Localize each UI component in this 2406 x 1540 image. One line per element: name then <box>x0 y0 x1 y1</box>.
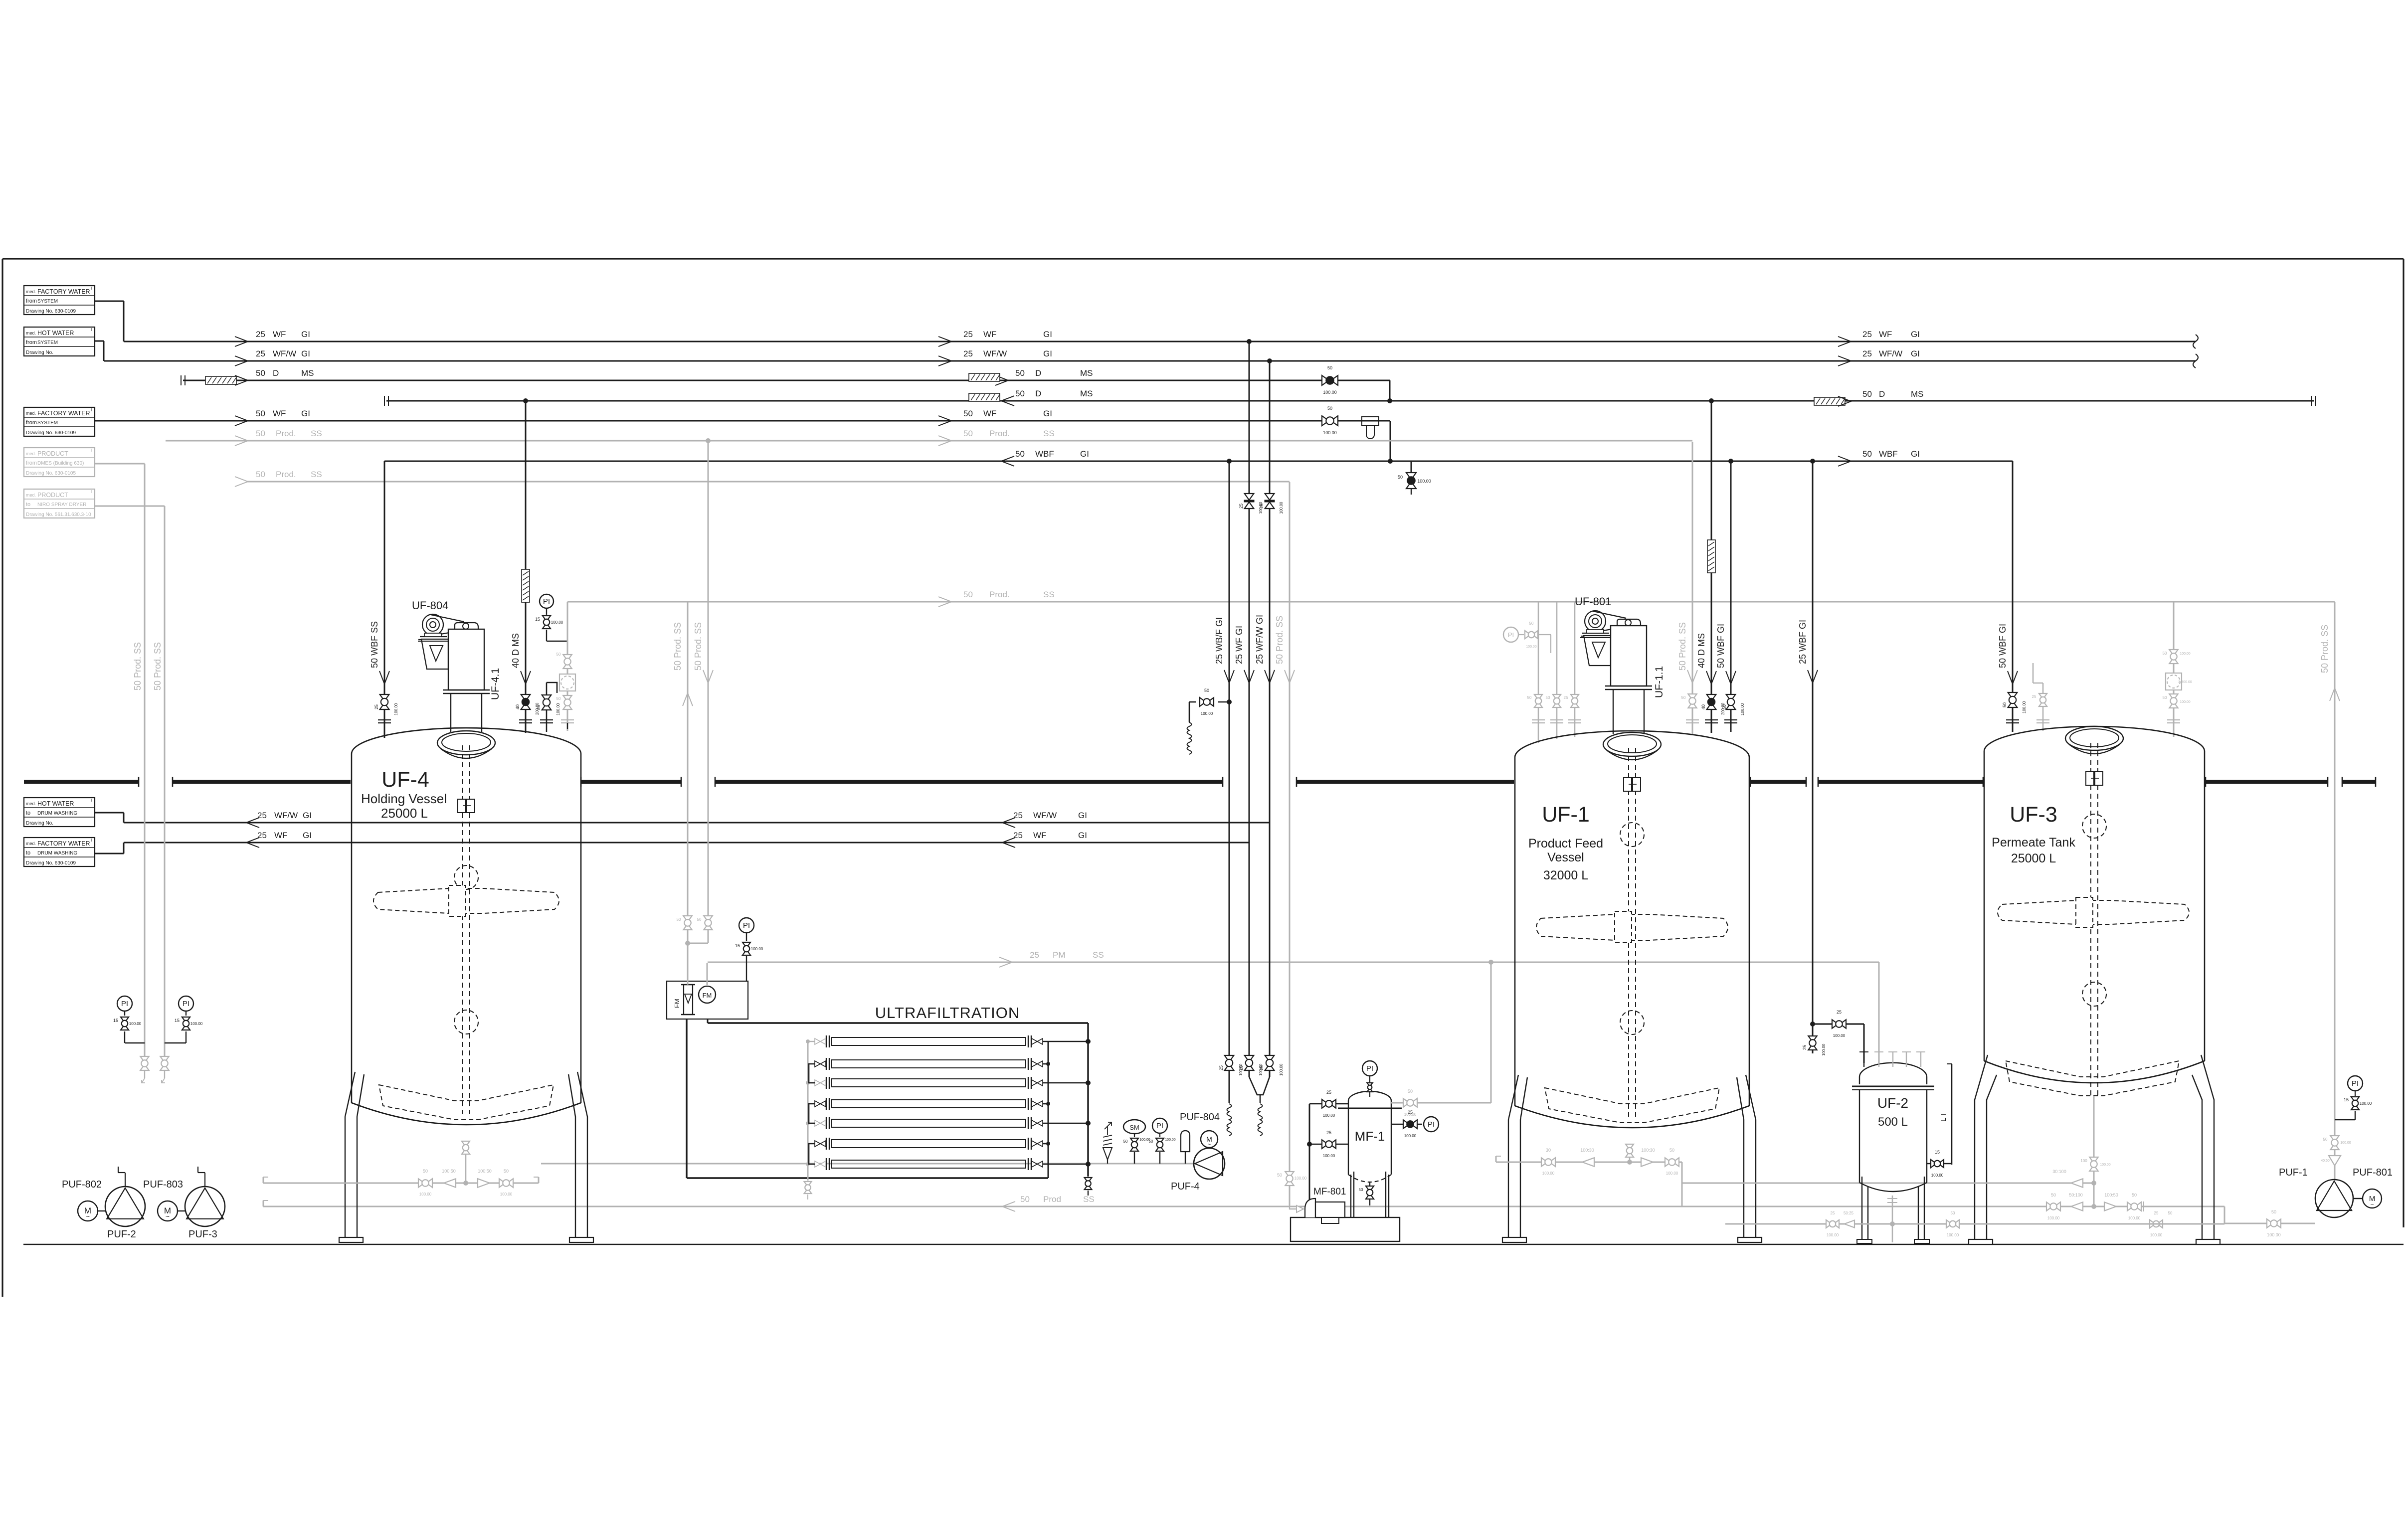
svg-text:50: 50 <box>1204 688 1209 693</box>
wire UF inner right manifold <box>1048 1041 1049 1178</box>
node D2 junction x2787 <box>1387 398 1392 403</box>
svg-text:WF: WF <box>274 831 287 840</box>
wire riser 40 D x3432 <box>1711 401 1712 733</box>
svg-text:50: 50 <box>1527 695 1532 700</box>
wire gray riser x1138 to UF-4 <box>567 602 568 731</box>
wire D line elbow down x2787 <box>1389 380 1391 401</box>
svg-text:50: 50 <box>1015 389 1025 398</box>
svg-text:GI: GI <box>1911 449 1920 459</box>
svg-text:D: D <box>273 368 279 378</box>
valve 25 MF-1 top <box>1309 1103 1348 1105</box>
wire riser x1096 lower <box>546 683 548 732</box>
svg-text:50: 50 <box>1277 1173 1282 1178</box>
instrument PI left1 <box>117 996 132 1011</box>
wire riser 25 WBF x3635 <box>1812 461 1814 1053</box>
svg-text:WF/W: WF/W <box>1879 349 1902 358</box>
wire gray riser x3394 <box>1692 442 1693 735</box>
valve 50 on D line at x2667 <box>1322 375 1338 385</box>
svg-text:50 Prod. SS: 50 Prod. SS <box>153 642 163 690</box>
wire PI left1 to riser <box>124 1031 125 1043</box>
valve 25 on riser x2505 bottom <box>1245 1055 1254 1070</box>
svg-text:100.00: 100.00 <box>2100 1163 2111 1167</box>
svg-text:100.00: 100.00 <box>1323 1113 1335 1118</box>
svg-text:MS: MS <box>301 368 314 378</box>
svg-text:15: 15 <box>2344 1097 2349 1102</box>
svg-text:Prod.: Prod. <box>989 429 1010 438</box>
svg-text:25 WBF GI: 25 WBF GI <box>1798 620 1808 664</box>
svg-text:50 Prod. SS: 50 Prod. SS <box>1677 622 1687 671</box>
svg-text:100: 100 <box>2080 1159 2087 1163</box>
wire riser 25 WBF x2465 <box>1229 461 1230 1063</box>
pump PUF-2 <box>105 1187 145 1226</box>
svg-text:from: from <box>26 298 37 304</box>
svg-text:50: 50 <box>2168 1211 2173 1215</box>
node x2465 branch <box>1227 699 1232 704</box>
wire gray PM stub from FM <box>707 963 708 986</box>
motor PUF-804 circle <box>1201 1131 1218 1148</box>
flag box HOT WATER from SYSTEM <box>24 327 95 356</box>
flag box PRODUCT to NIRO SPRAY DRYER <box>24 489 95 518</box>
wire gray FM outlet riser x1379 <box>687 602 689 985</box>
node Prod884 junction x1420 <box>706 438 711 443</box>
gray line MF-1 right <box>1391 1102 1491 1104</box>
wire riser 50 WBF x4036 <box>2012 461 2014 732</box>
svg-text:50 WBF SS: 50 WBF SS <box>370 621 379 668</box>
return line left hook <box>263 1200 264 1206</box>
wire gray return line y2420 <box>263 1206 2224 1207</box>
valve on outer manifold bottom <box>1085 1178 1092 1190</box>
svg-text:100.00: 100.00 <box>1666 1171 1678 1176</box>
svg-text:50: 50 <box>677 917 681 922</box>
valve 50 x4036 <box>2008 692 2018 707</box>
pipe WF1690 labels <box>246 838 259 848</box>
svg-text:GI: GI <box>301 409 310 418</box>
vessel MF-1 shell <box>1348 1091 1391 1108</box>
svg-text:50: 50 <box>1015 368 1025 378</box>
svg-text:50: 50 <box>1408 1089 1413 1094</box>
svg-text:WF/W: WF/W <box>1033 811 1057 820</box>
svg-text:PI: PI <box>1428 1120 1435 1129</box>
svg-text:100.00: 100.00 <box>190 1022 203 1026</box>
gray check line y2373 <box>1682 1183 2094 1184</box>
svg-text:HOT WATER: HOT WATER <box>37 330 74 337</box>
steam trap on WF line <box>1362 417 1379 425</box>
valve below PI PUF-4 <box>1156 1138 1164 1151</box>
agitator UF-804 motor/gear/column <box>422 614 443 635</box>
svg-text:SS: SS <box>1043 429 1055 438</box>
svg-text:15: 15 <box>113 1018 118 1023</box>
wire PI to FM box <box>746 956 747 981</box>
svg-text:50 Prod. SS: 50 Prod. SS <box>1275 616 1285 664</box>
svg-text:L I: L I <box>1939 1114 1948 1122</box>
pipe return labels <box>1002 1201 1015 1211</box>
gray riser x330 valve <box>160 1056 169 1070</box>
svg-text:50: 50 <box>2271 1209 2276 1214</box>
svg-text:50: 50 <box>963 590 973 599</box>
wire pipe 50 Prod SS y884 <box>166 440 1692 442</box>
svg-text:PUF-3: PUF-3 <box>188 1229 217 1240</box>
pipe WFW1650 labels <box>246 818 259 828</box>
svg-text:100.00: 100.00 <box>1526 645 1537 649</box>
svg-text:100.00: 100.00 <box>2150 1233 2163 1237</box>
svg-text:50: 50 <box>2163 695 2167 700</box>
svg-text:med.: med. <box>26 841 36 846</box>
node WBF junction x3471 <box>1728 459 1733 464</box>
wire UF feed top line <box>708 1022 1088 1024</box>
pulsation damper <box>1181 1131 1190 1152</box>
svg-text:WF: WF <box>1033 831 1046 840</box>
wire gray riser x2586 <box>1289 482 1291 1205</box>
svg-text:50: 50 <box>1020 1195 1030 1204</box>
node MF-1 feed junction <box>1307 1142 1312 1147</box>
pipe 50D2 start break <box>384 396 385 406</box>
svg-text:SS: SS <box>1043 590 1055 599</box>
svg-text:25: 25 <box>1862 330 1872 339</box>
wire riser x2505 tail <box>1249 1071 1250 1077</box>
valve 50 on x1420 <box>704 916 712 930</box>
flag box FACTORY WATER from SYSTEM 2 <box>24 407 95 436</box>
svg-text:~: ~ <box>86 1212 90 1220</box>
svg-text:50: 50 <box>1546 695 1550 700</box>
svg-text:100.00: 100.00 <box>551 620 563 625</box>
svg-text:25: 25 <box>1013 831 1023 840</box>
vessel UF-3 legs <box>1975 1055 1988 1239</box>
svg-text:25: 25 <box>1326 1130 1331 1135</box>
svg-text:50: 50 <box>963 429 973 438</box>
svg-text:25: 25 <box>2154 1211 2159 1215</box>
wire PI to gray riser <box>546 630 547 641</box>
valve 25 on riser x771 <box>380 694 389 709</box>
svg-text:SS: SS <box>1093 950 1104 960</box>
node WBF junction x2788 <box>1388 459 1393 464</box>
svg-text:PI: PI <box>2352 1079 2359 1088</box>
pump PUF-4 <box>1194 1148 1225 1179</box>
svg-text:DRUM WASHING: DRUM WASHING <box>37 811 77 816</box>
wire riser 25 WF x2505 <box>1249 342 1250 1063</box>
UF module left gray taps <box>808 1041 815 1042</box>
FM rotameter <box>684 985 693 1015</box>
svg-text:50:100: 50:100 <box>2069 1193 2083 1198</box>
wire pipe 50 Prod SS y1207 <box>567 601 2335 603</box>
wire riser x2546 tail <box>1269 1071 1271 1077</box>
vessel UF-3 drain <box>2093 1096 2095 1206</box>
svg-text:25: 25 <box>1239 1065 1244 1070</box>
svg-text:50: 50 <box>1862 389 1872 399</box>
svg-text:100.00: 100.00 <box>1542 1171 1555 1176</box>
svg-text:UF-4.1: UF-4.1 <box>490 668 501 700</box>
wire UF retentate left down <box>686 1019 687 1178</box>
svg-text:med.: med. <box>26 411 36 416</box>
svg-text:Prod.: Prod. <box>276 470 296 479</box>
svg-text:Prod: Prod <box>1043 1195 1061 1204</box>
svg-text:SS: SS <box>311 470 322 479</box>
svg-text:Drawing No. 561.31.630.3-10: Drawing No. 561.31.630.3-10 <box>26 512 91 517</box>
valve 25 on riser x2465 bottom <box>1225 1055 1234 1070</box>
pipe 25 WF/W squiggle end <box>2193 354 2198 368</box>
svg-text:D: D <box>1879 389 1885 399</box>
svg-text:50 WBF GI: 50 WBF GI <box>1716 624 1726 668</box>
svg-text:3-300.00: 3-300.00 <box>2178 681 2192 684</box>
svg-text:~: ~ <box>1208 1142 1211 1148</box>
svg-text:100.00: 100.00 <box>1404 1134 1417 1138</box>
svg-text:FM: FM <box>673 999 681 1008</box>
svg-text:DRUM WASHING: DRUM WASHING <box>37 851 77 856</box>
valve 25 on branch UF-2 <box>1832 1020 1846 1028</box>
wire riser x2465 tail <box>1229 1071 1230 1103</box>
riser x3635 marks <box>1808 670 1818 683</box>
svg-text:100.00: 100.00 <box>1931 1173 1944 1178</box>
svg-text:Drawing No.: Drawing No. <box>26 821 53 826</box>
svg-text:25: 25 <box>1837 1010 1842 1015</box>
svg-text:100.00: 100.00 <box>2022 701 2027 713</box>
flag box PRODUCT from DMES <box>24 448 95 477</box>
svg-text:25: 25 <box>374 704 379 709</box>
valve 25 on x3635 stub <box>1808 1036 1817 1050</box>
svg-text:UF-804: UF-804 <box>412 599 448 612</box>
riser x4682 marks <box>2330 688 2340 701</box>
svg-text:WF: WF <box>983 330 996 339</box>
svg-text:50: 50 <box>2002 702 2007 707</box>
svg-text:50: 50 <box>2163 651 2167 656</box>
pipe 25 WF GI arrows/labels <box>235 337 248 346</box>
WBF branch x2830 down <box>1411 461 1412 473</box>
riser x3432 marks <box>1706 671 1716 684</box>
pipe 50 D start break <box>181 375 182 385</box>
riser x4036 marks <box>2008 671 2018 684</box>
svg-text:GI: GI <box>1043 330 1052 339</box>
svg-text:ULTRAFILTRATION: ULTRAFILTRATION <box>875 1004 1020 1022</box>
svg-text:40: 40 <box>1701 704 1706 709</box>
border frame left <box>1 259 3 1297</box>
wire pipe 50 WBF GI y925 <box>384 461 2013 462</box>
svg-text:Permeate Tank: Permeate Tank <box>1992 836 2075 850</box>
svg-text:Prod.: Prod. <box>989 590 1010 599</box>
svg-text:UF-1: UF-1 <box>1542 803 1590 827</box>
level gauge UF-2 <box>1951 1064 1953 1165</box>
svg-text:50: 50 <box>1327 406 1332 411</box>
instrument SM <box>1123 1120 1145 1134</box>
wire pipe 25 PM SS y1930 <box>708 962 1879 963</box>
svg-text:GI: GI <box>1078 831 1087 840</box>
svg-text:50 Prod. SS: 50 Prod. SS <box>2320 625 2330 673</box>
svg-text:25000 L: 25000 L <box>2011 852 2056 865</box>
svg-text:100:50: 100:50 <box>442 1169 456 1174</box>
svg-text:25: 25 <box>963 349 973 358</box>
svg-text:50: 50 <box>1398 475 1403 480</box>
node D2/MS junction x1054 <box>523 398 528 403</box>
svg-text:100.00: 100.00 <box>1279 502 1284 514</box>
instrument PI right of MF-1 <box>1424 1117 1439 1132</box>
svg-text:MS: MS <box>1080 389 1093 398</box>
svg-text:25: 25 <box>1259 504 1264 509</box>
vessel UF-2 legs <box>1861 1177 1862 1241</box>
svg-text:WF/W: WF/W <box>273 349 296 358</box>
svg-text:100.00: 100.00 <box>1417 479 1431 484</box>
wire MF-1 feed line <box>1309 1104 1310 1201</box>
svg-text:D: D <box>1035 389 1041 398</box>
svg-text:25: 25 <box>1239 504 1244 509</box>
svg-text:25: 25 <box>1013 811 1023 820</box>
svg-text:25: 25 <box>536 705 541 710</box>
UF module left black U-bends <box>809 1064 815 1083</box>
valve below SM <box>1130 1138 1138 1151</box>
svg-text:GI: GI <box>1911 349 1920 358</box>
vessel UF-4 shell <box>352 728 581 754</box>
svg-text:30: 30 <box>1546 1148 1551 1153</box>
svg-text:med.: med. <box>26 493 36 498</box>
svg-text:FM: FM <box>703 992 712 999</box>
svg-text:50: 50 <box>1862 449 1872 459</box>
valve 40 solid x3432 <box>1707 694 1716 709</box>
gray L to UF-3 left <box>2033 663 2034 683</box>
valve 50 on x4682 <box>2330 1136 2339 1150</box>
wire UF outer right manifold <box>1087 1023 1089 1177</box>
vessel UF-4 legs <box>345 1072 355 1237</box>
valve 15 below PI left2 <box>182 1017 190 1030</box>
riser x1420 marks <box>703 670 713 683</box>
wire PI left2 to riser <box>185 1031 186 1043</box>
svg-text:HOT WATER: HOT WATER <box>37 800 74 807</box>
wire gray PM riser x3768 <box>1878 962 1880 1063</box>
pipe Prod884 arrows/labels <box>235 436 248 446</box>
svg-text:50: 50 <box>1149 1139 1153 1144</box>
valve 50 on x2586 <box>1285 1172 1294 1186</box>
gray manifold under UF-4 <box>263 1183 539 1184</box>
svg-text:40:50: 40:50 <box>2321 1159 2330 1163</box>
pipe 50D2 end break <box>2311 396 2312 406</box>
branch to UF-2 <box>1813 1024 1864 1025</box>
wire thick main header y1568 <box>24 780 139 784</box>
wire riser 50 WBF x3471 <box>1730 461 1732 732</box>
svg-text:40: 40 <box>515 704 520 709</box>
wire UF bottom line <box>687 1177 1048 1179</box>
svg-text:100.00: 100.00 <box>129 1022 142 1026</box>
svg-text:GI: GI <box>1043 409 1052 418</box>
svg-text:PUF-804: PUF-804 <box>1180 1112 1220 1123</box>
wire UF left gray manifold <box>807 1041 809 1181</box>
svg-text:15: 15 <box>535 617 540 622</box>
wire PI PUF-1 connect <box>2355 1111 2356 1120</box>
gray valve on x4097 <box>2039 693 2047 706</box>
valve 15 over FM <box>742 942 750 955</box>
svg-text:50: 50 <box>504 1169 509 1174</box>
svg-text:25: 25 <box>963 330 973 339</box>
gray manifold under UF-1 <box>1496 1162 1682 1163</box>
svg-text:50: 50 <box>1951 1211 1955 1215</box>
svg-text:15: 15 <box>175 1018 180 1023</box>
wire riser 40 D MS x1054 <box>525 401 527 733</box>
svg-text:WF/W: WF/W <box>983 349 1007 358</box>
border frame top <box>2 258 2404 259</box>
svg-text:50 Prod. SS: 50 Prod. SS <box>673 622 683 671</box>
svg-text:GI: GI <box>301 349 310 358</box>
vessel UF-1 shell <box>1515 731 1749 757</box>
vessel UF-1 drain <box>1629 1145 1631 1162</box>
agitator UF-801 assembly <box>1585 611 1606 632</box>
svg-text:GI: GI <box>301 330 310 339</box>
svg-text:25: 25 <box>257 831 267 840</box>
svg-text:100.00: 100.00 <box>1323 1154 1335 1158</box>
svg-text:15: 15 <box>735 943 740 948</box>
svg-text:WF: WF <box>273 330 286 339</box>
svg-text:25: 25 <box>1219 1065 1224 1070</box>
svg-text:50 WBF GI: 50 WBF GI <box>1998 624 2008 668</box>
svg-text:100:30: 100:30 <box>1580 1148 1594 1153</box>
funnel below WF risers <box>1249 1077 1270 1095</box>
node x3635 branch <box>1810 1022 1815 1027</box>
wire gray riser x4359 <box>2173 602 2175 737</box>
svg-text:D: D <box>1035 368 1041 378</box>
pipe Prod1207 labels <box>938 597 951 607</box>
pipe 25 WF GI squiggle end <box>2193 335 2198 348</box>
valve 100 on UF-3 drain <box>2089 1157 2098 1171</box>
svg-text:med.: med. <box>26 331 36 336</box>
svg-text:15: 15 <box>1935 1150 1940 1155</box>
svg-text:med.: med. <box>26 801 36 806</box>
wire pipe 25 WF/W GI y724 <box>104 360 2196 362</box>
riser from FACTORY WATER drum box <box>95 853 124 855</box>
svg-text:PUF-4: PUF-4 <box>1171 1181 1200 1192</box>
svg-text:FACTORY WATER: FACTORY WATER <box>37 288 90 295</box>
svg-text:GI: GI <box>303 811 312 820</box>
svg-text:50: 50 <box>2323 1137 2328 1142</box>
svg-text:100.00: 100.00 <box>2180 700 2191 704</box>
svg-text:SYSTEM: SYSTEM <box>37 340 58 345</box>
valve 50 on WF line at x2667 <box>1322 416 1338 426</box>
svg-text:PM: PM <box>1053 950 1066 960</box>
motor PUF-801 <box>2363 1189 2382 1208</box>
vessel UF-2 drain <box>1892 1196 1893 1242</box>
wire gray suction line y2334 <box>541 1163 1195 1165</box>
wire gray riser x4682 <box>2334 602 2336 1180</box>
svg-text:WF: WF <box>273 409 286 418</box>
svg-text:PI: PI <box>121 1000 128 1008</box>
valve 25 MF-1 mid <box>1309 1144 1348 1145</box>
flag box HOT WATER to DRUM WASHING <box>24 798 95 827</box>
svg-text:from: from <box>26 340 37 345</box>
pipe WBF arrows/labels <box>1001 456 1014 466</box>
node x1379 junction <box>685 941 690 946</box>
riser x1379 marks <box>683 693 693 706</box>
valve gray near PI UF-1 <box>1525 631 1538 639</box>
svg-text:50: 50 <box>1529 621 1534 626</box>
instrument PI left2 <box>179 996 193 1011</box>
svg-text:Drawing No. 630-0109: Drawing No. 630-0109 <box>26 430 76 436</box>
svg-text:WBF: WBF <box>1879 449 1898 459</box>
svg-text:50: 50 <box>1015 449 1025 459</box>
svg-text:100.00: 100.00 <box>394 703 398 715</box>
svg-text:Drawing No. 630-0109: Drawing No. 630-0109 <box>26 860 76 866</box>
svg-text:Drawing No.: Drawing No. <box>26 350 53 355</box>
vessel UF-4 drain <box>465 1142 467 1156</box>
svg-text:Drawing No. 630-0109: Drawing No. 630-0109 <box>26 309 76 314</box>
instrument PI on MF-1 <box>1362 1061 1377 1076</box>
valve MF-1 bottom drain <box>1369 1183 1370 1187</box>
wire branch to coil x2385 <box>1218 701 1229 703</box>
vessel UF-1 legs <box>1508 1075 1518 1237</box>
node UF-3 drain junction2 <box>2091 1204 2096 1209</box>
relief valve on suction <box>1107 1148 1108 1164</box>
svg-text:PUF-2: PUF-2 <box>107 1229 136 1240</box>
svg-text:MS: MS <box>1911 389 1924 399</box>
svg-text:UF-3: UF-3 <box>2010 803 2057 827</box>
pipe 50 D hatch 1 <box>205 376 236 384</box>
valve 50 closed at x2830 <box>1406 473 1416 489</box>
svg-text:PUF-802: PUF-802 <box>62 1179 102 1190</box>
svg-text:SS: SS <box>311 429 322 438</box>
valve 15 below PI PUF-1 <box>2351 1097 2359 1110</box>
svg-text:25 WF GI: 25 WF GI <box>1234 626 1244 664</box>
